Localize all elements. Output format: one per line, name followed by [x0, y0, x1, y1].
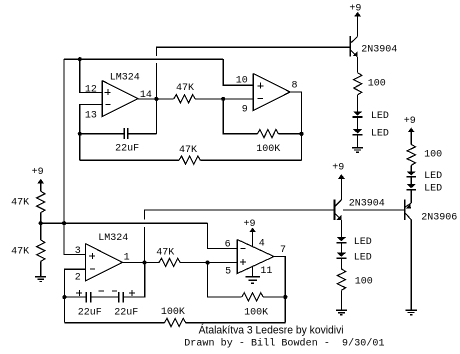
- op-amp U1D plus input sign: [240, 261, 246, 263]
- wire D5 to D6: [340, 243, 342, 252]
- wire R2 to pin 9: [195, 98, 253, 100]
- op-amp U1B plus input sign: [257, 85, 263, 87]
- ground (pin 11): [245, 276, 260, 278]
- wire R6 to LED3: [410, 165, 412, 171]
- svg-text:10: 10: [236, 75, 248, 86]
- wire divider node to R9: [40, 223, 42, 240]
- capacitor C3 22uF plates: [118, 292, 120, 303]
- svg-text:Átalakítva 3 Ledesre by kovidi: Átalakítva 3 Ledesre by kovidivi: [199, 324, 344, 337]
- svg-text:22uF: 22uF: [115, 144, 139, 155]
- wire Q3 collector to ground: [410, 220, 412, 310]
- LED D6 (Q2 chain): [337, 253, 346, 257]
- wire +9 to Q2 collector: [340, 178, 342, 200]
- wire pin 11 to ground: [252, 266, 254, 276]
- wire R7 to ground: [340, 290, 342, 310]
- op-amp U1A plus input sign: [105, 91, 111, 93]
- node output 1: [142, 261, 146, 265]
- transistor Q1 collector stroke: [350, 37, 357, 44]
- arrow +9 supply (Q2): [338, 174, 345, 179]
- svg-text:13: 13: [85, 111, 97, 122]
- svg-text:100: 100: [355, 276, 373, 287]
- svg-text:LED: LED: [424, 184, 442, 195]
- transistor Q2 collector stroke: [335, 200, 342, 207]
- node B capacitor junction: [78, 132, 82, 136]
- wire D6 to R7: [340, 259, 342, 269]
- LED D3 (right chain): [407, 171, 416, 175]
- svg-text:100K: 100K: [256, 144, 280, 155]
- wire D3 to D4: [410, 178, 412, 184]
- node pin 9 junction: [221, 97, 225, 101]
- wire output 14 to 47K R2: [138, 98, 174, 100]
- svg-text:100K: 100K: [161, 307, 185, 318]
- resistor R11 100K (U1D feedback): [242, 293, 264, 301]
- svg-text:47K: 47K: [179, 145, 197, 156]
- resistor R3 47K feedback row wire left: [80, 159, 179, 161]
- wire pin5 node down to 100K R11: [208, 263, 242, 297]
- op-amp U1C plus input sign: [89, 255, 95, 257]
- op-amp U1A LM324 triangle: [102, 81, 138, 117]
- wire node C to C2: [64, 296, 86, 298]
- wire +9 to Q1 collector: [357, 16, 359, 37]
- wire divider reference rail to pin 6 drop: [41, 222, 208, 224]
- svg-text:6: 6: [225, 239, 231, 250]
- wire output 8 down to feedback corner: [290, 92, 302, 160]
- wire Q1 emitter to R5: [357, 57, 359, 73]
- svg-text:100K: 100K: [244, 307, 268, 318]
- ground (Q3 collector): [406, 309, 417, 311]
- capacitor C1 22uF plates: [123, 128, 125, 139]
- capacitor C2 22uF polarity minus: [99, 290, 104, 292]
- wire Q2 base rail to Q3 base: [343, 209, 405, 211]
- arrow +9 supply (right): [408, 128, 415, 133]
- transistor Q3 emitter stroke: [405, 203, 412, 207]
- svg-text:100: 100: [424, 149, 442, 160]
- transistor Q2 emitter arrowhead: [337, 215, 342, 220]
- wire reference to pin 3: [64, 223, 85, 254]
- resistor R3 47K (feedback): [179, 156, 201, 164]
- svg-text:2N3906: 2N3906: [421, 212, 457, 223]
- svg-text:+9: +9: [332, 163, 344, 174]
- resistor R6 100 (right chain): [407, 144, 415, 165]
- wire pin 13 to feedback node B: [80, 105, 102, 134]
- wire R9 to ground: [40, 261, 42, 276]
- op-amp U1D minus input sign: [240, 248, 245, 250]
- op-amp U1B LM324 triangle: [253, 74, 290, 111]
- node A junction on top rail: [78, 57, 82, 61]
- wire +9 to pin 4: [252, 231, 254, 246]
- svg-text:4: 4: [259, 239, 265, 250]
- ground (divider): [35, 276, 46, 278]
- wire +9 to R6: [410, 131, 412, 144]
- LED D4 (right chain): [407, 184, 416, 188]
- svg-text:7: 7: [280, 245, 286, 256]
- wire pin 2 to node C: [64, 269, 85, 297]
- svg-text:47K: 47K: [176, 83, 194, 94]
- arrow +9 supply (pin 4): [249, 228, 256, 233]
- wire node B down to 47K feedback row: [79, 134, 81, 161]
- wire node A down to pin 12: [80, 59, 102, 92]
- wire R11 to output 7 rail: [263, 296, 285, 298]
- transistor Q3 2N3906 base bar: [404, 200, 406, 221]
- svg-text:9: 9: [242, 105, 248, 116]
- node output 7 feedback junction: [283, 295, 287, 299]
- capacitor C1 22uF right wire: [128, 133, 156, 135]
- svg-text:2: 2: [75, 272, 81, 283]
- resistor R7 100 (Q2 chain): [337, 269, 345, 290]
- transistor Q3 emitter arrowhead: [406, 204, 412, 209]
- svg-text:+9: +9: [32, 167, 44, 178]
- svg-text:22uF: 22uF: [78, 307, 102, 318]
- svg-text:3: 3: [75, 246, 81, 257]
- svg-text:100: 100: [368, 78, 386, 89]
- transistor Q2 emitter stroke: [335, 213, 342, 220]
- op-amp U1D LM324 triangle: [237, 240, 274, 274]
- resistor R5 100 (top chain): [354, 73, 362, 95]
- wire pin 10 drop from top rail: [223, 59, 253, 85]
- wire R8 to divider node: [40, 213, 42, 224]
- node reference rail junction: [62, 221, 66, 225]
- wire +9 to R8: [40, 183, 42, 192]
- node C capacitor junction: [62, 295, 66, 299]
- LED D5 (Q2 chain): [337, 237, 346, 241]
- svg-text:LED: LED: [424, 171, 442, 182]
- LED D1 (top chain): [353, 111, 362, 115]
- ground (top chain): [352, 147, 363, 149]
- svg-text:8: 8: [292, 81, 298, 92]
- svg-text:2N3904: 2N3904: [361, 44, 397, 55]
- resistor R10 47K (lower): [159, 258, 180, 266]
- wire left long reference feed down to divider node: [63, 59, 65, 223]
- svg-text:11: 11: [260, 266, 272, 277]
- wire D2 to ground: [357, 136, 359, 148]
- svg-text:LED: LED: [371, 129, 389, 140]
- transistor Q1 emitter arrowhead: [353, 51, 358, 56]
- wire output node up to Q1 base rail (gap at crossing): [156, 47, 350, 134]
- wire top reference rail (node A to U1B side): [64, 58, 223, 60]
- svg-text:LM324: LM324: [98, 233, 128, 244]
- capacitor C2 22uF plates: [85, 292, 87, 303]
- svg-text:LED: LED: [354, 237, 372, 248]
- node divider tap: [39, 221, 43, 225]
- transistor Q2 2N3904 base bar: [334, 199, 336, 220]
- wire R5 to LED1: [357, 95, 359, 112]
- capacitor C1 22uF left wire: [80, 133, 124, 135]
- svg-text:LM324: LM324: [110, 72, 140, 83]
- wire output 1 to 47K R10: [122, 262, 159, 264]
- resistor R2 47K (top middle): [174, 95, 196, 103]
- svg-text:2N3904: 2N3904: [349, 199, 385, 210]
- op-amp U1B minus input sign: [258, 97, 263, 99]
- svg-text:47K: 47K: [11, 198, 29, 209]
- resistor R4 100K (U1B feedback): [257, 130, 278, 138]
- wire R10 to pin 5: [180, 262, 237, 264]
- transistor Q1 emitter stroke: [350, 50, 357, 57]
- op-amp U1C minus input sign: [90, 268, 95, 270]
- capacitor C2 22uF polarity plus: [76, 292, 82, 294]
- svg-text:+9: +9: [349, 3, 361, 14]
- wire node C down to bottom feedback row: [63, 297, 65, 323]
- svg-text:+9: +9: [404, 116, 416, 127]
- svg-text:47K: 47K: [156, 248, 174, 259]
- wire output 1 rail to Q2 base (gap at crossing): [145, 210, 335, 263]
- resistor R12 100K (bottom feedback): [164, 318, 185, 326]
- wire R3 to output 8 corner: [200, 159, 301, 161]
- wire Q2 emitter to LED5: [340, 220, 342, 237]
- wire bottom feedback row right: [186, 322, 286, 324]
- wire bottom feedback row left: [64, 322, 164, 324]
- capacitor C3 22uF polarity plus: [129, 292, 135, 294]
- svg-text:LED: LED: [354, 253, 372, 264]
- resistor R9 47K (divider bottom): [37, 240, 45, 262]
- svg-text:+9: +9: [244, 219, 256, 230]
- op-amp U1C LM324 triangle: [86, 244, 123, 281]
- node output 8 feedback junction: [299, 132, 303, 136]
- wire C3 to output rail corner: [124, 263, 145, 298]
- svg-text:47K: 47K: [11, 246, 29, 257]
- svg-text:Drawn by - Bill Bowden - 9/30: Drawn by - Bill Bowden - 9/30/01: [184, 337, 384, 349]
- transistor Q1 2N3904 base bar: [349, 36, 351, 57]
- op-amp U1A minus input sign: [106, 103, 111, 105]
- wire output 7 down to bottom feedback row: [274, 257, 285, 323]
- wire pin9 node down to 100K R4: [223, 99, 257, 134]
- capacitor C3 22uF polarity minus: [112, 290, 117, 292]
- svg-text:12: 12: [85, 84, 97, 95]
- LED D2 (top chain): [353, 129, 362, 133]
- svg-text:5: 5: [225, 266, 231, 277]
- wire D4 to Q3 emitter: [410, 190, 412, 203]
- wire pin 6 drop: [208, 223, 238, 248]
- node pin 5 junction: [206, 261, 210, 265]
- wire R4 to output 8: [278, 133, 301, 135]
- wire C2 to C3: [91, 296, 119, 298]
- arrow +9 supply (divider): [37, 179, 44, 184]
- arrow +9 supply (top): [354, 12, 361, 17]
- svg-text:LED: LED: [371, 111, 389, 122]
- ground (Q2 chain): [336, 309, 347, 311]
- node output 14: [154, 97, 158, 101]
- svg-text:22uF: 22uF: [114, 307, 138, 318]
- resistor R8 47K (divider top): [37, 191, 45, 213]
- wire D1 to D2: [357, 118, 359, 130]
- transistor Q3 collector stroke: [405, 213, 412, 220]
